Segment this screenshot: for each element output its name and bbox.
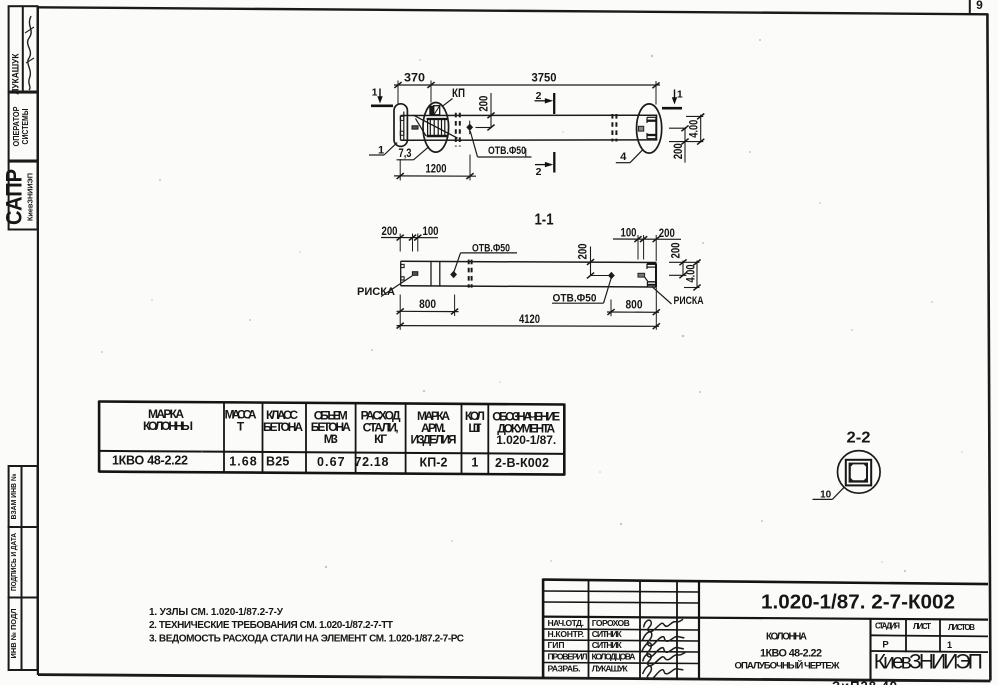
svg-text:Р: Р xyxy=(882,639,889,650)
svg-text:1КВО 48-2.22: 1КВО 48-2.22 xyxy=(760,647,822,659)
svg-text:7,3: 7,3 xyxy=(399,148,412,160)
svg-text:ГИП: ГИП xyxy=(548,640,565,650)
svg-text:1: 1 xyxy=(372,87,378,99)
svg-text:100: 100 xyxy=(423,226,439,238)
svg-text:В25: В25 xyxy=(266,455,289,469)
svg-text:200: 200 xyxy=(382,226,398,238)
svg-text:4.00: 4.00 xyxy=(689,120,701,138)
svg-text:200: 200 xyxy=(673,143,685,159)
svg-text:4120: 4120 xyxy=(519,314,540,326)
svg-text:2-2: 2-2 xyxy=(847,430,871,447)
svg-text:1200: 1200 xyxy=(426,164,447,176)
svg-text:72.18: 72.18 xyxy=(355,455,389,469)
svg-text:СИСТЕМЫ: СИСТЕМЫ xyxy=(21,108,30,144)
svg-text:ШТ: ШТ xyxy=(468,421,482,435)
svg-text:КиевЗНИИЭП: КиевЗНИИЭП xyxy=(874,651,983,674)
svg-text:200: 200 xyxy=(578,244,590,260)
svg-text:4: 4 xyxy=(620,151,627,163)
svg-text:СИТНИК: СИТНИК xyxy=(592,629,623,639)
svg-text:ОПАЛУБОЧНЫЙ ЧЕРТЕЖ: ОПАЛУБОЧНЫЙ ЧЕРТЕЖ xyxy=(735,660,840,672)
svg-text:ЛИСТОВ: ЛИСТОВ xyxy=(948,623,975,632)
svg-text:КОЛОДЦОВА: КОЛОДЦОВА xyxy=(592,652,636,662)
svg-text:100: 100 xyxy=(621,228,637,240)
svg-text:КОЛОННЫ: КОЛОННЫ xyxy=(143,419,193,433)
svg-text:ЛУКАШУК: ЛУКАШУК xyxy=(11,53,21,94)
svg-text:200: 200 xyxy=(671,243,683,259)
svg-text:ОТВ.Ф50: ОТВ.Ф50 xyxy=(488,145,526,157)
svg-text:ГОРОХОВ: ГОРОХОВ xyxy=(592,618,630,628)
svg-text:КОЛОННА: КОЛОННА xyxy=(766,631,807,642)
svg-text:ЛУКАШУК: ЛУКАШУК xyxy=(592,663,629,673)
svg-text:СТАДИЯ: СТАДИЯ xyxy=(875,622,900,631)
svg-text:РИСКА: РИСКА xyxy=(357,286,395,298)
svg-text:10: 10 xyxy=(820,489,832,500)
svg-text:КГ: КГ xyxy=(374,432,387,446)
svg-text:1: 1 xyxy=(471,456,478,470)
svg-text:М3: М3 xyxy=(324,432,338,446)
svg-text:Н.КОНТР.: Н.КОНТР. xyxy=(548,629,585,639)
svg-text:2: 2 xyxy=(536,166,542,178)
svg-text:КП-2: КП-2 xyxy=(420,456,448,470)
svg-text:ИЗДЕЛИЯ: ИЗДЕЛИЯ xyxy=(411,433,457,447)
svg-text:370: 370 xyxy=(404,73,425,85)
svg-text:1-1: 1-1 xyxy=(535,212,554,229)
svg-text:ЗиП28 49: ЗиП28 49 xyxy=(832,679,898,685)
svg-text:2-В-К002: 2-В-К002 xyxy=(495,456,549,470)
svg-text:НАЧ.ОТД.: НАЧ.ОТД. xyxy=(548,618,585,628)
svg-text:0.67: 0.67 xyxy=(317,455,345,469)
svg-text:КиевЗНИИЭП: КиевЗНИИЭП xyxy=(26,173,35,221)
svg-text:ВЗАМ ИНВ №: ВЗАМ ИНВ № xyxy=(10,473,18,519)
svg-text:БЕТОНА: БЕТОНА xyxy=(263,420,303,434)
svg-text:ОПЕРАТОР: ОПЕРАТОР xyxy=(12,107,21,147)
svg-text:200: 200 xyxy=(479,96,491,112)
svg-text:РИСКА: РИСКА xyxy=(674,295,704,307)
svg-text:2: 2 xyxy=(536,90,542,102)
svg-text:9: 9 xyxy=(976,0,983,12)
svg-text:3750: 3750 xyxy=(532,73,557,85)
svg-text:Т: Т xyxy=(237,420,245,434)
svg-text:1.020-1/87.: 1.020-1/87. xyxy=(496,433,556,447)
svg-text:САПР: САПР xyxy=(2,169,27,225)
svg-text:200: 200 xyxy=(659,228,675,240)
svg-text:800: 800 xyxy=(419,299,436,311)
svg-text:КП: КП xyxy=(452,88,465,100)
svg-text:1: 1 xyxy=(947,640,953,651)
svg-text:ПОДПИСЬ И ДАТА: ПОДПИСЬ И ДАТА xyxy=(11,533,18,591)
svg-text:СИТНИК: СИТНИК xyxy=(592,640,623,650)
svg-text:4.00: 4.00 xyxy=(686,265,698,283)
svg-text:1.68: 1.68 xyxy=(229,454,257,468)
svg-text:ИНВ № ПОДЛ: ИНВ № ПОДЛ xyxy=(10,608,18,658)
svg-text:800: 800 xyxy=(626,300,643,312)
svg-text:1. УЗЛЫ СМ. 1.020-1/87.2-7-У: 1. УЗЛЫ СМ. 1.020-1/87.2-7-У xyxy=(149,607,284,618)
svg-text:3. ВЕДОМОСТЬ РАСХОДА СТАЛИ НА: 3. ВЕДОМОСТЬ РАСХОДА СТАЛИ НА ЭЛЕМЕНТ СМ… xyxy=(149,633,464,644)
svg-text:1.020-1/87. 2-7-К002: 1.020-1/87. 2-7-К002 xyxy=(761,592,955,614)
svg-text:1КВО 48-2.22: 1КВО 48-2.22 xyxy=(112,454,188,468)
svg-text:РАЗРАБ.: РАЗРАБ. xyxy=(548,663,581,673)
svg-text:ЛИСТ: ЛИСТ xyxy=(913,622,931,631)
svg-text:1: 1 xyxy=(677,89,683,101)
svg-text:ПРОВЕРИЛ: ПРОВЕРИЛ xyxy=(548,652,588,662)
svg-text:2. ТЕХНИЧЕСКИЕ ТРЕБОВАНИЯ СМ.: 2. ТЕХНИЧЕСКИЕ ТРЕБОВАНИЯ СМ. 1.020-1/87… xyxy=(149,620,393,631)
